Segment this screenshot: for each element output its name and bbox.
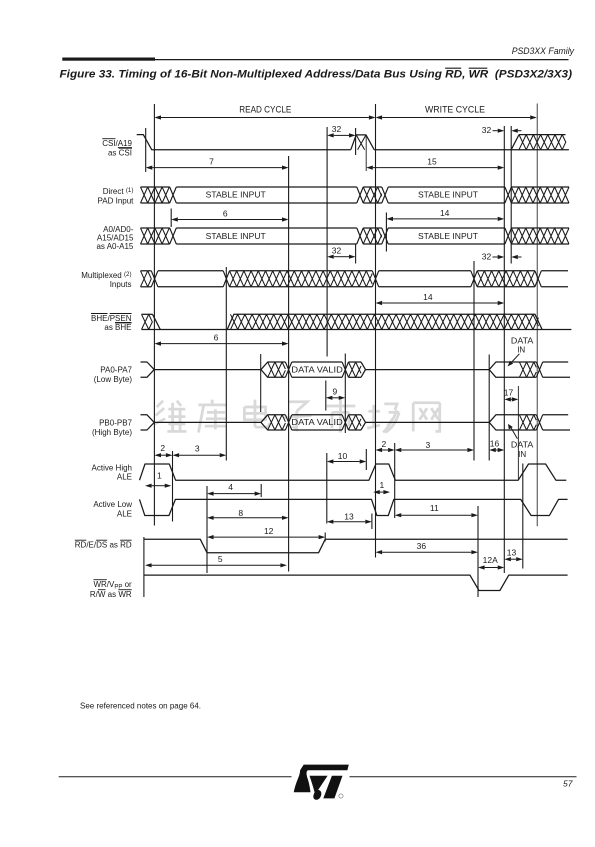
label WR/Vpp or R/W as WR	[90, 580, 132, 599]
vertical ref line x478 (WR fall lower)	[477, 506, 479, 597]
bus collapse stubs	[141, 415, 155, 423]
label Multiplexed Inputs	[81, 271, 131, 289]
READ CYCLE arrow	[161, 117, 369, 119]
svg-text:36: 36	[417, 541, 427, 551]
svg-text:17: 17	[504, 388, 514, 398]
gray line x537.3 (write cycle end)	[536, 104, 538, 527]
overline CSI (line2)	[119, 147, 132, 149]
Active Low ALE waveform	[140, 499, 568, 515]
DATA IN arrow (PB row)	[511, 427, 518, 439]
svg-text:57: 57	[563, 779, 573, 789]
underline SEN	[115, 321, 132, 323]
A0/AD rails left hatch	[141, 227, 170, 229]
band close to single line	[361, 362, 489, 370]
tick x260.7 (data valid start)	[260, 354, 262, 412]
PAD hatch right	[511, 186, 569, 188]
svg-text:ALE: ALE	[117, 510, 132, 519]
svg-text:14: 14	[440, 208, 450, 218]
vertical ref line read-cycle start x154	[153, 104, 155, 526]
label RD/E/DS as RD	[75, 541, 132, 550]
svg-text:ALE: ALE	[117, 472, 132, 481]
label PA0-PA7 (Low Byte)	[94, 366, 133, 384]
overline CSI (line1)	[102, 138, 115, 140]
svg-text:(High Byte): (High Byte)	[92, 428, 132, 437]
tick x145.7 (csi fall / 7 left)	[145, 128, 147, 172]
single line	[154, 369, 261, 371]
svg-text:RD/E/DS as RD: RD/E/DS as RD	[75, 541, 132, 550]
svg-text:32: 32	[332, 124, 342, 134]
watermark (approximate CJK glyph shapes)	[157, 401, 163, 407]
svg-text:STABLE INPUT: STABLE INPUT	[418, 232, 478, 241]
svg-text:PAD Input: PAD Input	[98, 196, 135, 205]
tick x261.2 (4 right)	[260, 484, 262, 497]
svg-text:5: 5	[218, 554, 223, 564]
MUX hatch (read)	[230, 270, 373, 272]
overline BHE (line1)	[91, 313, 108, 315]
svg-text:16: 16	[490, 438, 500, 448]
svg-text:Active High: Active High	[92, 464, 132, 473]
band close to single line	[361, 415, 489, 423]
svg-text:9: 9	[333, 387, 338, 397]
vertical ref line x327.1 upper	[326, 127, 328, 357]
tick x143.9 (RD/WR start / 5 left)	[143, 537, 145, 597]
MUX open band (write)	[379, 270, 471, 272]
A0 stable input band (read)	[176, 227, 356, 229]
svg-text:IN: IN	[517, 345, 525, 354]
overline RD (last)	[120, 539, 132, 541]
svg-text:32: 32	[332, 245, 342, 255]
label BHE/PSEN as BHE	[91, 314, 132, 332]
svg-text:DATA VALID: DATA VALID	[291, 418, 343, 427]
footer rule right	[350, 776, 577, 777]
tick x371.9 (13 right)	[371, 514, 373, 530]
svg-text:13: 13	[507, 547, 517, 557]
header rule thin segment	[155, 59, 569, 60]
svg-text:6: 6	[214, 332, 219, 342]
overline DS	[96, 539, 107, 541]
A0 hatch right	[511, 227, 569, 229]
svg-text:BHE/PSEN: BHE/PSEN	[91, 314, 132, 323]
BHE bottom rail	[142, 329, 572, 331]
WRITE CYCLE arrow	[382, 117, 530, 119]
svg-text:R/W as WR: R/W as WR	[90, 590, 132, 599]
open into DATA VALID band	[261, 415, 285, 423]
MUX inputs left hatch diamond	[141, 270, 152, 272]
svg-text:12: 12	[264, 526, 274, 536]
svg-text:WRITE CYCLE: WRITE CYCLE	[425, 104, 485, 114]
underline A19	[118, 147, 132, 149]
MUX open right	[541, 270, 568, 272]
tick x355.6 upper (32 right / glitch rise)	[355, 128, 357, 155]
svg-text:2: 2	[160, 443, 165, 453]
vertical ref line x226.3	[225, 267, 227, 461]
overline BHE (line2)	[115, 322, 132, 324]
label PB0-PB7 (High Byte)	[92, 419, 133, 437]
svg-text:8: 8	[238, 508, 243, 518]
MUX open band	[158, 270, 223, 272]
PAD hatch at cycle boundary	[363, 186, 382, 188]
tick x366.3 (10 right)	[365, 449, 367, 470]
svg-text:7: 7	[209, 156, 214, 166]
svg-text:STABLE INPUT: STABLE INPUT	[206, 232, 266, 241]
overline WR (line2)	[118, 589, 131, 591]
CSI hatched region after write	[519, 134, 566, 136]
svg-text:1: 1	[380, 480, 385, 490]
bus collapse stubs	[141, 362, 155, 370]
open into DATA VALID band	[261, 362, 285, 370]
tick x355.6 lower	[355, 244, 357, 264]
single line	[154, 421, 261, 423]
tick x386.4 (14 left)	[385, 213, 387, 252]
BHE rise into hatch	[227, 314, 542, 329]
open for DATA IN	[489, 362, 519, 370]
BHE fall to low	[153, 314, 161, 329]
MUX hatch (write)	[477, 270, 535, 272]
svg-text:as BHE: as BHE	[104, 323, 131, 332]
PAD input rails	[141, 186, 170, 188]
WR waveform	[144, 575, 568, 590]
label Active Low ALE	[93, 500, 132, 519]
svg-text:15: 15	[427, 156, 437, 166]
overline RD (first)	[75, 539, 87, 541]
title overline RD	[445, 67, 461, 69]
vertical ref line x207 (RD fall)	[206, 486, 208, 573]
overline PSEN	[110, 313, 132, 315]
footer rule left	[59, 776, 292, 777]
svg-text:11: 11	[430, 503, 439, 513]
vertical ref line x511.2	[510, 126, 512, 264]
title overline WR	[469, 67, 488, 69]
tick x325.2 (12 right)	[324, 533, 326, 542]
PAD stable input band (write)	[388, 186, 505, 188]
svg-text:as CSI: as CSI	[108, 148, 132, 157]
svg-text:DATA: DATA	[511, 337, 534, 346]
tick x171.2 (6 left)	[170, 209, 172, 228]
tick x325.8 (9 left)	[325, 381, 327, 411]
DATA IN arrow (PA row)	[511, 354, 520, 364]
open for DATA IN	[489, 415, 519, 423]
vertical ref line x504.3 (WR rise)	[503, 126, 505, 573]
svg-text:32: 32	[482, 252, 492, 262]
svg-text:Figure 33. Timing of 16-Bit No: Figure 33. Timing of 16-Bit Non-Multiple…	[60, 68, 573, 80]
svg-text:DATA: DATA	[511, 441, 534, 450]
svg-text:DATA VALID: DATA VALID	[291, 365, 343, 374]
svg-text:4: 4	[228, 482, 233, 492]
label CSI/A19 as CSI	[102, 139, 132, 157]
tick x172.5 (2/3 boundary)	[172, 451, 174, 522]
svg-text:3: 3	[426, 440, 431, 450]
gray tick x366.2 (csi glitch fall)	[365, 136, 367, 171]
vertical ref line x288.6	[288, 156, 290, 572]
overline W in R/W	[98, 589, 106, 591]
svg-text:PA0-PA7: PA0-PA7	[100, 366, 132, 375]
svg-text:See referenced notes on page 6: See referenced notes on page 64.	[80, 702, 201, 711]
CSI low to write-end rise	[374, 135, 519, 150]
BHE left diamond	[142, 313, 153, 315]
label Direct PAD Input	[98, 187, 135, 205]
label A0/AD0- A15/AD15 as A0-A15	[96, 225, 133, 251]
vertical ref line read/write boundary x375.5	[375, 104, 377, 558]
svg-text:Active Low: Active Low	[93, 500, 132, 509]
A0 hatch at boundary	[363, 227, 382, 229]
svg-text:14: 14	[423, 292, 433, 302]
CSI waveform: high, fall, low	[137, 135, 351, 150]
RD waveform	[144, 539, 568, 552]
header rule thick segment	[62, 58, 155, 61]
label Active High ALE	[92, 464, 132, 482]
vertical ref line x522.8	[522, 464, 524, 569]
svg-text:PB0-PB7: PB0-PB7	[99, 419, 132, 428]
tick x326.8 lower (10/13 dims)	[326, 453, 328, 524]
svg-text:CSI/A19: CSI/A19	[102, 139, 132, 148]
svg-text:(Low Byte): (Low Byte)	[94, 375, 133, 384]
svg-text:1: 1	[157, 471, 162, 481]
svg-text:12A: 12A	[483, 555, 498, 565]
svg-text:6: 6	[223, 208, 228, 218]
Active High ALE waveform	[140, 464, 567, 480]
svg-text:PSD3XX Family: PSD3XX Family	[512, 46, 576, 56]
tick x394.7 (write 2/1/11 boundary)	[394, 443, 396, 518]
vertical ref line x474 (WR fall upper)	[473, 261, 475, 461]
svg-text:13: 13	[344, 511, 354, 521]
gray line x518.4	[517, 386, 519, 480]
tick x489.2 (16 left)	[488, 355, 490, 461]
overline WR (line1)	[94, 579, 107, 581]
svg-text:10: 10	[338, 451, 348, 461]
svg-text:as A0-A15: as A0-A15	[96, 242, 133, 251]
svg-text:3: 3	[195, 444, 200, 454]
svg-text:Inputs: Inputs	[110, 280, 132, 289]
svg-text:32: 32	[482, 125, 492, 135]
A0 stable input band (write)	[388, 227, 505, 229]
ST logo	[294, 765, 349, 800]
svg-text:STABLE INPUT: STABLE INPUT	[418, 190, 478, 199]
svg-text:IN: IN	[518, 450, 526, 459]
svg-text:READ CYCLE: READ CYCLE	[239, 104, 291, 114]
svg-text:STABLE INPUT: STABLE INPUT	[206, 190, 266, 199]
vertical ref line x345.3 (data valid end)	[344, 354, 346, 434]
CSI glitch pulse at read/write boundary	[351, 135, 374, 150]
svg-text:2: 2	[382, 439, 387, 449]
PAD stable input band (read)	[176, 186, 356, 188]
